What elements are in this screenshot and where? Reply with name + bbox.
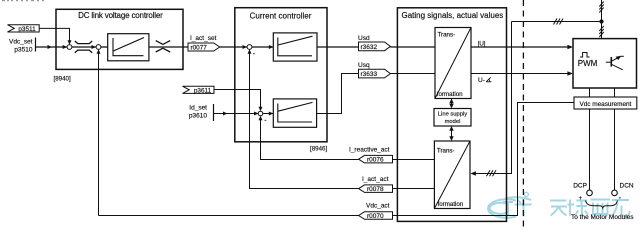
- wire PI1 out: [149, 46, 188, 48]
- svg-text:r0078: r0078: [367, 186, 384, 193]
- PWM box: [573, 39, 637, 88]
- r0076 output badge: [359, 155, 393, 163]
- wire PI2 to r3632: [317, 46, 359, 48]
- svg-text:p3511: p3511: [18, 26, 36, 33]
- IGBT transistor icon: [606, 56, 624, 70]
- wire Vdc_set to sum1: [36, 45, 68, 49]
- DC link voltage controller box: [56, 9, 183, 69]
- r3633 output badge: [359, 69, 391, 78]
- terminal DCN: [612, 190, 618, 196]
- 3-phase slashes on top bus: [554, 19, 564, 25]
- svg-text:r3632: r3632: [361, 44, 378, 51]
- svg-text:-: -: [619, 195, 621, 202]
- svg-text:|U|: |U|: [478, 40, 486, 47]
- svg-text:p3510: p3510: [14, 47, 32, 54]
- wire r3633 to transformation: [390, 73, 435, 75]
- double arrow line supply model to transformation 2: [449, 126, 453, 141]
- svg-text:Trans-: Trans-: [438, 32, 456, 39]
- wire |U| to PWM: [471, 45, 573, 49]
- terminal tick Id_set: [213, 104, 215, 121]
- line sense wire (3-phase) into transformation 2: [470, 22, 511, 176]
- svg-text:DC link voltage controller: DC link voltage controller: [78, 11, 163, 20]
- wire sum1 to sum2: [72, 45, 96, 49]
- double arrow transformation to line supply model: [449, 99, 453, 109]
- wire junction up to line supply: [601, 0, 603, 22]
- r0078 output badge: [359, 185, 393, 193]
- PI controller 2: [273, 33, 317, 61]
- I_act_act feedback wire: [248, 49, 359, 188]
- wire U-angle to PWM: [471, 71, 573, 75]
- r3632 output badge: [359, 42, 391, 51]
- svg-text:r3633: r3633: [361, 71, 378, 78]
- line supply model box: [434, 109, 471, 127]
- wire r0076 to transformation 2: [393, 159, 435, 161]
- wire p3511 to sum1: [39, 28, 71, 44]
- r0070 output badge: [359, 212, 393, 220]
- svg-text:Vdc_act: Vdc_act: [366, 203, 390, 210]
- svg-text:[8946]: [8946]: [310, 145, 327, 152]
- 3-phase slashes on sense wire: [487, 170, 497, 176]
- svg-text:I_act_set: I_act_set: [190, 35, 217, 42]
- pulse icon: [580, 53, 590, 58]
- junction dot: [599, 19, 603, 23]
- transformation block U2: [434, 141, 470, 209]
- svg-text:model: model: [445, 119, 461, 125]
- summer sum1: [67, 45, 72, 50]
- limiter symbol 2: [156, 41, 171, 52]
- svg-text:To the Motor Modules: To the Motor Modules: [571, 214, 634, 221]
- Vdc_act feedback vertical wire: [97, 49, 101, 215]
- wire junction down to PWM: [601, 22, 603, 39]
- PI controller 3: [273, 99, 316, 127]
- Vdc measurement box: [574, 97, 637, 109]
- svg-text:DCP: DCP: [573, 182, 587, 189]
- svg-text:r0070: r0070: [367, 213, 384, 220]
- svg-text:formation: formation: [438, 201, 464, 208]
- wire sumA to PI2: [252, 45, 273, 49]
- svg-text:DCN: DCN: [620, 182, 634, 189]
- cut-off text specks top-left: [2, 0, 44, 1]
- Gating signals box: [397, 8, 506, 222]
- top bus wire: [512, 21, 602, 23]
- svg-text:U-: U-: [478, 77, 485, 84]
- wire r0078 to transformation 2: [393, 188, 435, 190]
- 3-phase slashes to PWM: [599, 26, 603, 37]
- watermark characters: [503, 197, 630, 217]
- wire sum2 to PI1: [101, 46, 108, 48]
- transformation block U1: [435, 28, 471, 99]
- p3511 input badge: [8, 25, 40, 33]
- svg-text:r0077: r0077: [191, 44, 208, 51]
- svg-text:Line supply: Line supply: [438, 112, 467, 118]
- terminal tick Vdc_set: [35, 38, 37, 52]
- r0077 output badge: [188, 43, 220, 51]
- terminal DCP: [587, 190, 593, 196]
- svg-text:Usd: Usd: [358, 35, 370, 42]
- svg-text:Current controller: Current controller: [250, 12, 312, 21]
- svg-text:I_reactive_act: I_reactive_act: [349, 147, 390, 154]
- wire sumB to PI3: [263, 112, 273, 116]
- svg-text:Vdc measurement: Vdc measurement: [579, 101, 631, 108]
- watermark logo swirl: [488, 192, 531, 217]
- Current controller box: [235, 8, 327, 142]
- summer sumA: [247, 45, 252, 50]
- wire r3632 to transformation: [390, 46, 435, 48]
- svg-text:r0076: r0076: [367, 157, 384, 164]
- p3611 input badge: [183, 86, 215, 94]
- svg-text:+: +: [579, 195, 583, 202]
- summer sum2: [96, 45, 101, 50]
- wire r0077 to sumA: [220, 45, 247, 49]
- svg-text:p3611: p3611: [194, 87, 212, 94]
- wire p3611 to sumB: [214, 90, 263, 112]
- wire Vdc_act run: [99, 103, 575, 216]
- svg-text:PWM: PWM: [578, 59, 598, 68]
- PI controller 1: [108, 34, 149, 61]
- svg-text:Gating signals, actual values: Gating signals, actual values: [401, 11, 503, 20]
- summer sumB: [258, 111, 263, 116]
- U-angle label: [478, 77, 491, 84]
- wires PWM to Vdc measurement: [589, 88, 591, 97]
- wire PI3 to r3633: [317, 74, 359, 114]
- svg-text:[8940]: [8940]: [54, 76, 71, 83]
- svg-text:formation: formation: [437, 91, 463, 98]
- svg-text:I_act_act: I_act_act: [362, 176, 389, 183]
- svg-text:Id_set: Id_set: [189, 105, 207, 112]
- dashed boundary line: [522, 0, 524, 227]
- I_reactive_act feedback wire: [259, 116, 359, 160]
- svg-text:Vdc_set: Vdc_set: [9, 39, 33, 46]
- limiter symbol 1: [75, 41, 92, 53]
- 3-phase slashes top: [599, 2, 603, 13]
- wires Vdc measurement to DC terminals: [589, 109, 591, 190]
- brace: [586, 201, 618, 209]
- svg-text:p3610: p3610: [189, 113, 207, 120]
- wire Id_set to sumB: [214, 112, 259, 116]
- svg-text:Usq: Usq: [358, 62, 370, 69]
- svg-text:Trans-: Trans-: [437, 147, 455, 154]
